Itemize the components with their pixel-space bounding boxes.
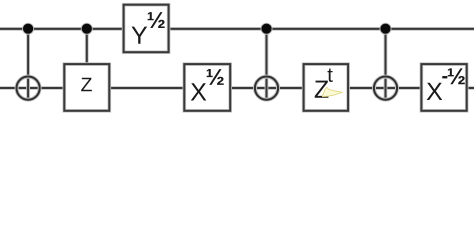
gate X^-1/2 label minus [442,76,447,78]
CNOT-1 vertical wire [27,29,29,100]
gate X^1/2 label X [191,83,207,100]
cursor artifact [322,87,342,96]
control dot CNOT-2 halo [261,23,273,35]
control dot CZ [82,24,92,34]
gate X^1/2 label exponent [207,69,224,85]
gate Z label [81,78,92,91]
CNOT-2 target halo [255,77,278,100]
CNOT-3 vertical wire [385,29,387,100]
gate X^-1/2 label exponent [448,68,465,84]
wire q1 halo [0,86,474,90]
gate Y^1/2 box border [124,5,169,53]
CNOT-2 vertical wire [266,29,268,100]
control dot CNOT-1 [23,24,33,34]
CNOT-1 target halo [17,77,40,100]
CZ vertical wire [86,29,88,64]
gate X^1/2 box border [184,64,230,111]
gate Z^t box fill [304,64,349,111]
gate Y^1/2 box fill [124,5,169,53]
gate Y^1/2 label exponent [148,12,165,28]
CNOT-2 target [255,77,278,100]
control dot CNOT-3 halo [380,23,392,35]
gate X^1/2 box fill [184,64,230,111]
gate Z box border [64,64,109,111]
CNOT-1 vertical halo [26,29,30,100]
control dot CNOT-3 [380,24,390,34]
gate Y^1/2 box halo [124,5,169,53]
gate X^-1/2 label X [427,83,443,100]
gate X^1/2 box halo [184,64,230,111]
gate X^-1/2 box fill [421,64,466,111]
control dot CZ halo [81,23,93,35]
CZ vertical halo [85,29,89,64]
wire q0 (top) [0,28,474,30]
gate Z box fill [64,64,109,111]
CNOT-1 target [17,77,40,100]
CNOT-3 target halo [374,77,397,100]
wire q1 (bottom) [0,87,474,89]
control dot CNOT-1 halo [22,23,34,35]
CNOT-3 target [374,77,397,100]
wire q0 halo [0,27,474,31]
gate Z^t box border [304,64,349,111]
gate Y^1/2 label Y [132,27,148,44]
gate Z^t box halo [304,64,349,111]
gate X^-1/2 box halo [421,64,466,111]
control dot CNOT-2 [261,24,271,34]
CNOT-2 vertical halo [265,29,269,100]
gate Z box halo [64,64,109,111]
CNOT-3 vertical halo [384,29,388,100]
gate Z^t label exponent t [328,69,333,82]
gate Z^t label Z [315,81,329,98]
gate X^-1/2 box border [421,64,466,111]
